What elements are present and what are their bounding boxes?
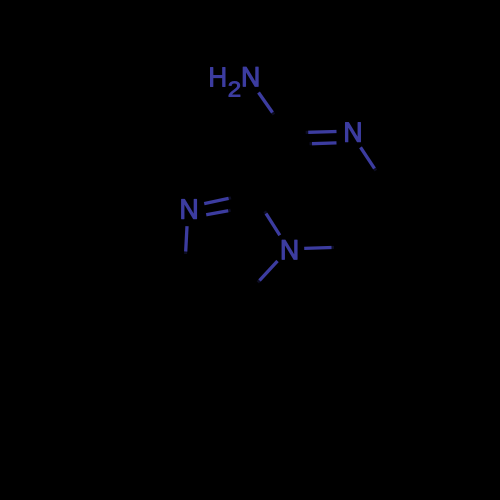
wire: C5-N4 bond (blue half): [304, 246, 331, 250]
wire: fade tail of N1-C2 bond toward C2: [184, 252, 187, 255]
wire: fade tail of N4-C3 bond toward C3: [258, 281, 260, 283]
wire: C8=N7 double bond main line (blue half): [308, 130, 336, 134]
wire: fade tail of C8=N7 main line toward C8: [306, 131, 309, 134]
wire: N1-C2 bond (blue half): [186, 226, 187, 251]
wire: fade tail of N7-C6 bond toward C6: [375, 169, 376, 171]
node N7: pyrazine nitrogen label: [346, 123, 361, 142]
wire: fade tail of C8a=N1 main line toward C8a: [229, 196, 231, 200]
node H2N: amine label subscript 2: [229, 81, 240, 96]
wire: fade tail of C5-N4 bond toward C5: [332, 246, 335, 249]
node N1: imidazole nitrogen label: [182, 200, 197, 219]
wire: fade tail of amine bond toward C8: [273, 113, 274, 115]
node H2N: amine label N: [243, 67, 258, 86]
wire: N4-C3 bond (blue half): [260, 261, 278, 281]
wire: fade tail of N4-C8a bond toward C8a: [265, 211, 266, 213]
wire: N4-C8a bond (blue half): [266, 214, 280, 236]
wire: C8a=N1 double bond main line (blue half): [204, 198, 228, 203]
wire: amine N-C8 bond (blue half): [259, 93, 273, 113]
wire: N7-C6 bond (blue half): [361, 147, 375, 168]
node N4: bridgehead nitrogen label: [282, 240, 297, 259]
node H2N: amine label H: [210, 67, 225, 86]
wire: C8=N7 double bond inner line (blue half): [312, 141, 337, 145]
wire: fade tail of C8a=N1 inner line toward C8a: [228, 209, 230, 213]
wire: fade tail of C8=N7 inner line toward C8: [310, 142, 313, 145]
wire: C8a=N1 double bond inner line (blue half): [206, 211, 228, 215]
